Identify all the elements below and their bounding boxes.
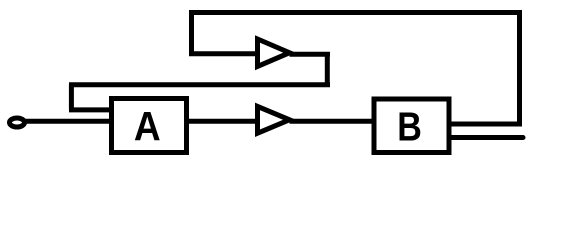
buffer U1 (feedback path) — [258, 39, 290, 66]
buffer U2 (forward path) — [258, 106, 290, 133]
wire input terminal to block A — [25, 119, 112, 124]
block A — [112, 99, 187, 153]
wire buffer U2 to block B — [290, 119, 375, 124]
wire drop after buffer U1 — [325, 54, 330, 84]
wire into buffer U1 — [189, 51, 258, 56]
wire feedback riser (right vertical) — [517, 13, 522, 125]
block B — [374, 99, 449, 153]
wire feedback return line — [69, 82, 330, 87]
input terminal — [10, 118, 25, 127]
wire left drop of feedback to buffer U1 — [189, 10, 194, 54]
wire block B lower output stub — [449, 135, 523, 140]
wire top feedback line — [189, 10, 522, 15]
wire block B upper output to feedback riser — [449, 122, 522, 127]
wire left drop into block A — [69, 85, 74, 110]
svg-text:B: B — [397, 104, 422, 150]
wire feedback entry into block A — [69, 107, 112, 112]
wire buffer U1 output — [290, 52, 331, 57]
svg-text:A: A — [134, 103, 161, 149]
wire block A to buffer U2 — [187, 119, 258, 124]
